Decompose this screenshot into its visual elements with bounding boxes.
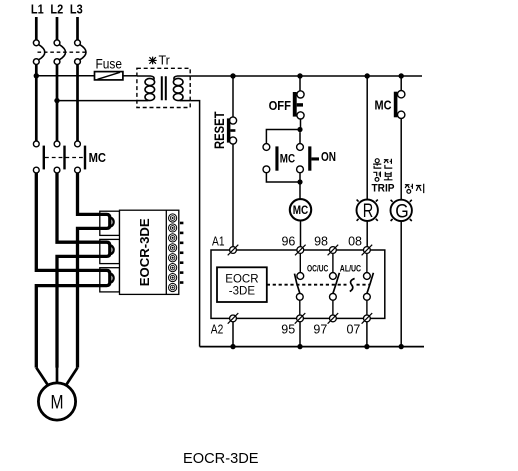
svg-text:08: 08 bbox=[348, 235, 362, 249]
svg-text:MC: MC bbox=[293, 203, 309, 217]
svg-text:L1: L1 bbox=[31, 3, 44, 17]
svg-text:07: 07 bbox=[346, 323, 360, 337]
svg-text:EOCR: EOCR bbox=[225, 273, 258, 285]
svg-text:M: M bbox=[51, 392, 64, 414]
svg-text:L3: L3 bbox=[70, 3, 83, 17]
svg-text:RESET: RESET bbox=[211, 111, 227, 149]
svg-text:95: 95 bbox=[281, 323, 295, 337]
svg-text:ON: ON bbox=[321, 150, 336, 164]
svg-text:MC: MC bbox=[375, 98, 392, 112]
svg-text:MC: MC bbox=[280, 151, 296, 165]
svg-text:EOCR-3DE: EOCR-3DE bbox=[183, 450, 259, 467]
svg-text:L2: L2 bbox=[50, 3, 63, 17]
svg-text:OC/UC: OC/UC bbox=[307, 263, 328, 274]
svg-text:OFF: OFF bbox=[269, 99, 292, 113]
svg-text:TRIP: TRIP bbox=[372, 183, 395, 195]
svg-text:G: G bbox=[395, 201, 409, 222]
svg-text:A1: A1 bbox=[212, 235, 225, 249]
svg-text:Fuse: Fuse bbox=[96, 57, 123, 72]
svg-text:EOCR-3DE: EOCR-3DE bbox=[137, 218, 152, 286]
svg-text:AL/UC: AL/UC bbox=[340, 263, 361, 274]
svg-text:Tr: Tr bbox=[159, 54, 170, 68]
svg-text:MC: MC bbox=[89, 151, 106, 165]
svg-text:R: R bbox=[363, 201, 374, 222]
svg-text:-3DE: -3DE bbox=[229, 286, 256, 298]
svg-text:96: 96 bbox=[281, 235, 295, 249]
svg-text:A2: A2 bbox=[211, 323, 224, 337]
svg-text:98: 98 bbox=[314, 235, 328, 249]
svg-text:97: 97 bbox=[313, 323, 327, 337]
